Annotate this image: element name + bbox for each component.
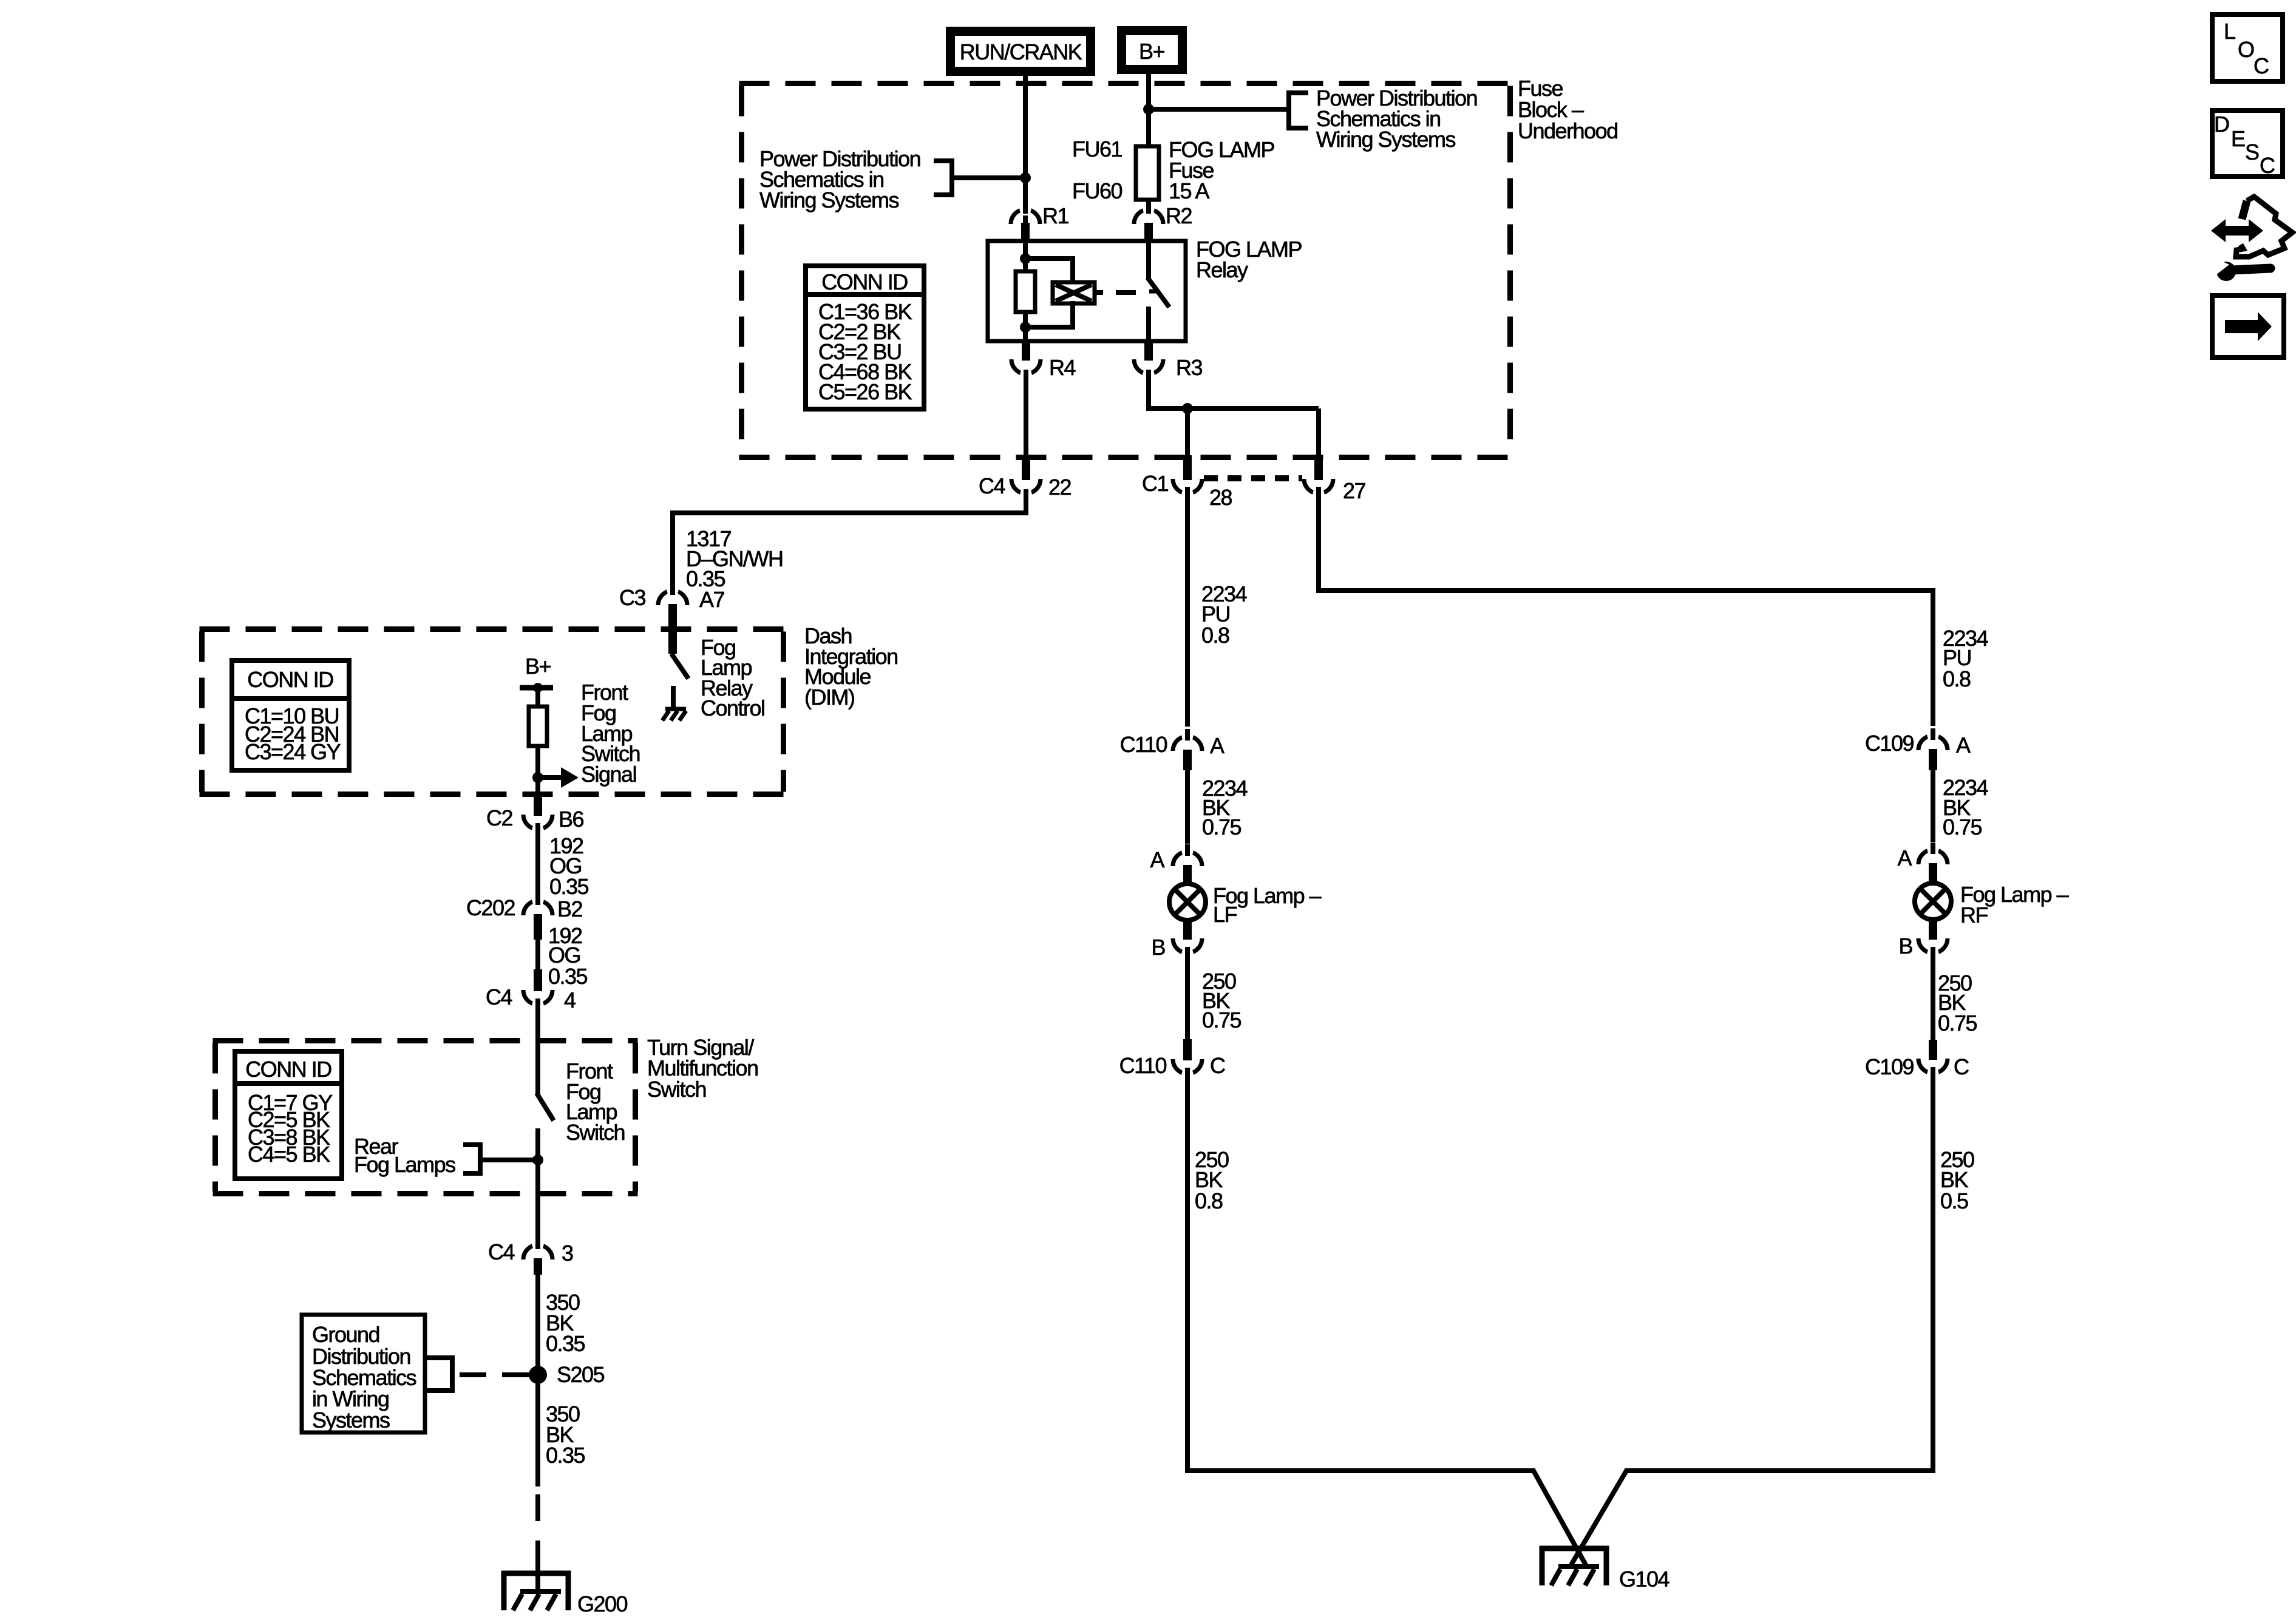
wire coil parallel top [1025,256,1073,285]
wire junction to C1 28 [1185,408,1190,456]
svg-text:Systems: Systems [312,1408,390,1432]
connector C109 pin A [1865,728,1971,770]
svg-text:S205: S205 [557,1362,605,1387]
svg-text:E: E [2231,126,2245,151]
wire pin 27 to right branch [1316,487,1935,726]
resistor DIM pull-up [529,707,547,746]
svg-text:C4: C4 [486,985,512,1009]
table CONN ID fuse block [806,266,924,409]
svg-text:C3: C3 [619,585,645,610]
connector C3 pin A7 [619,583,725,654]
node coil bottom junction [1020,322,1031,333]
Turn Signal Multifunction Switch dashed box [213,1041,638,1194]
label FOG LAMP Fuse 15 A [1169,137,1275,203]
svg-text:CONN ID: CONN ID [247,667,333,692]
label Fog Lamp - LF [1213,883,1322,927]
wire corner to pin 27 [1316,408,1321,456]
svg-text:0.35: 0.35 [548,964,588,989]
switch Front Fog Lamp Switch blade [537,1093,554,1120]
wire fuse to R2 [1146,200,1151,214]
svg-text:LF: LF [1213,902,1237,927]
svg-text:0.75: 0.75 [1202,1008,1241,1032]
label Fog Lamp - RF [1960,882,2069,927]
node junction on B+ wire [1143,104,1154,115]
lamp Fog Lamp RF [1915,883,1951,920]
splice S205 [529,1362,605,1387]
svg-text:B: B [1898,934,1912,958]
connector C202 pin B2 [466,893,583,940]
connector C2 pin B6 [486,792,584,836]
svg-text:RF: RF [1960,903,1988,927]
svg-text:R2: R2 [1166,203,1192,228]
svg-text:R4: R4 [1049,355,1075,380]
svg-text:28: 28 [1209,485,1232,510]
svg-text:CONN ID: CONN ID [245,1057,331,1082]
wire C109 C to G104 [1625,1067,1935,1473]
connector C110 pin C [1119,1039,1225,1081]
svg-text:C: C [1210,1053,1225,1078]
label Dash Integration Module (DIM) [804,623,898,710]
svg-text:0.35: 0.35 [549,874,589,899]
svg-text:Underhood: Underhood [1518,118,1618,143]
svg-text:0.5: 0.5 [1940,1188,1968,1213]
svg-text:27: 27 [1343,478,1366,503]
label circuit 2234 PU 0.8 right [1943,626,1988,691]
svg-text:C110: C110 [1119,1053,1167,1078]
node junction above C1 28 [1182,403,1193,414]
svg-text:Fog Lamps: Fog Lamps [354,1152,455,1177]
wire dashed continuation to G200 [535,1494,540,1567]
table CONN ID DIM [232,660,349,770]
connector lamp RF pin A [1897,842,1948,883]
svg-text:C4: C4 [979,473,1005,498]
ground G200 [501,1571,628,1616]
wire coil parallel bottom [1025,301,1073,330]
table CONN ID multifunction switch [235,1051,342,1179]
svg-text:B2: B2 [557,897,583,921]
icon DESC box [2212,110,2283,178]
svg-text:15 A: 15 A [1169,178,1210,203]
wire signal arrow [538,767,579,788]
connector C1 pin 28 [1142,455,1232,510]
wire C109 A to lamp A [1931,770,1935,842]
svg-text:0.8: 0.8 [1943,666,1971,691]
label Fuse Block - Underhood [1518,76,1618,143]
svg-text:0.8: 0.8 [1201,623,1229,648]
svg-text:B: B [1151,935,1165,960]
connector R3 [1134,340,1202,381]
svg-text:C4=5 BK: C4=5 BK [248,1142,330,1167]
lamp Fog Lamp LF [1169,884,1206,920]
svg-text:Signal: Signal [581,762,636,787]
svg-text:S: S [2245,140,2259,164]
svg-text:Relay: Relay [1196,257,1248,282]
svg-text:0.8: 0.8 [1195,1188,1223,1213]
label FU60 [1072,178,1123,203]
label circuit 2234 BK 0.75 left [1202,776,1248,839]
wire RUN/CRANK to relay coil [1023,72,1028,243]
svg-text:L: L [2224,19,2235,44]
connector lamp LF pin A [1150,844,1202,884]
wire stub into G200 [535,1567,540,1591]
svg-text:B6: B6 [559,807,584,832]
wire switch to C4 3 [535,1193,540,1242]
wire relay switch fixed bottom [1146,307,1151,341]
power feed RUN/CRANK box [951,32,1091,72]
wire RF diagonal into G104 [1571,1471,1626,1565]
connector C4 pin 22 [979,455,1072,501]
wire C4 4 to front fog lamp switch [535,998,540,1094]
svg-text:0.35: 0.35 [546,1443,585,1468]
resistor relay coil resistor [1016,271,1035,312]
label FOG LAMP Relay [1196,237,1302,282]
Fuse Block - Underhood dashed box [739,84,1513,458]
svg-text:FU61: FU61 [1072,137,1123,161]
svg-text:C3=24 GY: C3=24 GY [245,739,341,764]
svg-text:R3: R3 [1176,355,1202,380]
node junction at signal arrow [532,772,543,783]
svg-text:3: 3 [562,1241,573,1266]
power feed B+ box [1122,31,1183,70]
connector lamp RF pin B [1898,919,1948,960]
label Front Fog Lamp Switch Signal [581,680,640,787]
label circuit 350 BK 0.35 upper [546,1290,585,1356]
wire lamp B to C110 C [1185,947,1190,1040]
node junction on RUN/CRANK wire [1020,172,1031,183]
svg-text:C109: C109 [1865,731,1914,756]
svg-text:G104: G104 [1619,1567,1669,1592]
wire lamp RF B to C109 C [1931,947,1935,1041]
connector C1 pin 27 [1304,455,1366,503]
label circuit 350 BK 0.35 lower [546,1402,585,1468]
connector R4 [1011,340,1075,381]
wire Ground Distribution bracket dashed [425,1358,529,1391]
svg-text:A: A [1150,847,1164,872]
connector C110 pin A [1120,729,1224,770]
label circuit 192 OG 0.35 lower [548,923,588,989]
svg-text:C110: C110 [1120,732,1167,757]
svg-text:G200: G200 [577,1592,628,1616]
svg-text:D: D [2214,112,2229,137]
fuse FOG LAMP Fuse 15A [1136,146,1159,200]
Dash Integration Module dashed box [200,629,786,795]
wire junction to right bracket [1149,107,1289,112]
wire B+ to fuse FU61 [1146,70,1151,149]
svg-text:A7: A7 [699,587,725,612]
svg-text:C1: C1 [1142,471,1168,496]
label Fog Lamp Relay Control [701,635,765,720]
label Turn Signal Multifunction Switch [647,1035,758,1102]
wire C1 28 to C110 A [1185,487,1190,727]
connector C4 pin 3 [488,1238,573,1275]
svg-text:B+: B+ [525,654,551,679]
icon arrow box [2212,296,2284,358]
node junction rear fog lamps tap [532,1154,543,1165]
svg-text:B+: B+ [1139,39,1165,64]
wire LF diagonal into G104 [1533,1471,1586,1565]
label Rear Fog Lamps with bracket [354,1134,538,1177]
wire R3 to pin 27 horizontal [1149,406,1319,411]
wire relay control dashed link [1095,291,1159,293]
ground fog lamp relay control internal [662,686,686,720]
svg-text:R1: R1 [1042,203,1068,228]
wire resistor to C2 B6 [535,746,540,793]
wire relay coil branch [1023,241,1028,341]
svg-text:C2: C2 [486,805,512,830]
svg-text:0.75: 0.75 [1938,1011,1977,1036]
icon arrow-wrench [2211,197,2292,281]
svg-text:CONN ID: CONN ID [821,269,908,294]
svg-text:C: C [2260,153,2275,178]
wire C110 A to lamp A [1185,770,1190,844]
wire C202 B2 to C4 4 [535,940,540,971]
label Power Distribution (right) with bracket [1289,86,1477,152]
node coil top junction [1020,253,1031,264]
ground G104 [1540,1546,1669,1592]
wire relay switch fixed top [1146,241,1151,279]
label FU61 [1072,137,1123,161]
relay coil winding symbol [1053,282,1095,303]
label circuit 250 BK 0.75 left [1202,969,1241,1032]
svg-text:Ground: Ground [312,1322,379,1347]
wire switch lower contact [535,1128,540,1196]
svg-text:Wiring Systems: Wiring Systems [1316,127,1456,152]
connector R2 [1134,202,1192,243]
relay FOG LAMP Relay box [988,241,1186,341]
svg-text:0.75: 0.75 [1202,815,1241,839]
svg-text:Switch: Switch [647,1077,706,1102]
svg-text:Switch: Switch [566,1120,625,1145]
label circuit 250 BK 0.8 [1195,1147,1229,1213]
label circuit 2234 PU 0.8 left [1201,581,1247,648]
svg-text:C202: C202 [466,895,515,920]
label Ground Distribution box [302,1315,425,1432]
wire B+ to resistor [535,688,540,709]
svg-text:A: A [1897,846,1912,870]
label circuit 1317 D-GN/WH 0.35 [686,526,783,591]
label circuit 250 BK 0.75 right [1938,971,1977,1036]
svg-text:C: C [1954,1054,1969,1079]
wire C110 C to G104 [1185,1068,1535,1473]
power B+ terminal in DIM [520,654,553,693]
connector lamp LF pin B [1151,920,1202,960]
svg-text:A: A [1956,733,1971,758]
svg-text:0.75: 0.75 [1943,815,1982,839]
svg-text:C109: C109 [1865,1054,1914,1079]
svg-text:FU60: FU60 [1072,178,1123,203]
svg-text:(DIM): (DIM) [804,685,854,710]
connector C109 pin C [1865,1040,1969,1080]
label circuit 250 BK 0.5 [1940,1147,1974,1213]
label Power Distribution (left) with bracket [759,146,1025,212]
label circuit 2234 BK 0.75 right [1943,775,1988,839]
svg-text:4: 4 [564,988,576,1012]
icon LOC box [2212,15,2283,81]
label circuit 192 OG 0.35 upper [549,833,589,899]
svg-text:C5=26 BK: C5=26 BK [818,379,912,404]
wire R4 to C4 22 [1024,373,1028,456]
svg-text:RUN/CRANK: RUN/CRANK [960,39,1082,64]
wire C4 3 to S205 [535,1275,540,1375]
svg-text:22: 22 [1048,475,1072,500]
svg-text:Control: Control [701,696,765,720]
wire connector C1 body dotted [1204,475,1302,481]
wire S205 down [535,1383,540,1486]
svg-text:O: O [2238,37,2254,62]
connector C4 pin 4 [486,969,576,1012]
wire C2 B6 to C202 B2 [535,823,540,897]
svg-text:Wiring Systems: Wiring Systems [759,188,899,212]
svg-text:0.35: 0.35 [546,1331,585,1356]
label Front Fog Lamp Switch [566,1059,625,1145]
svg-text:C4: C4 [488,1239,514,1264]
svg-text:C: C [2254,53,2269,78]
connector R1 [1011,202,1068,243]
switch fog lamp relay control blade [671,654,688,679]
relay switch blade [1147,277,1169,307]
wire C4 22 to C3 A7 [670,493,1028,597]
svg-text:A: A [1210,733,1224,758]
wire R3 down [1146,373,1151,411]
